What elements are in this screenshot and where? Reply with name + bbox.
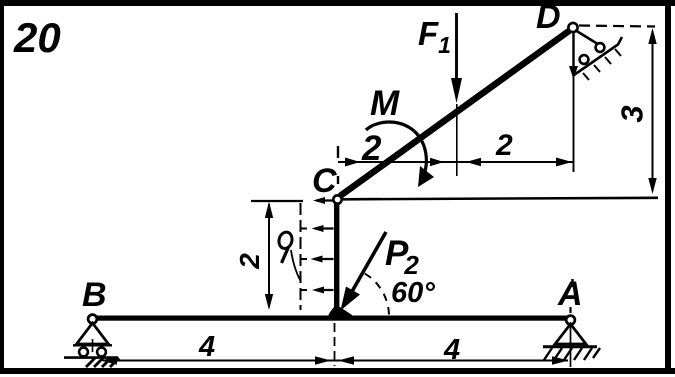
dim 3 arrow down — [648, 178, 656, 194]
svg-text:4: 4 — [198, 331, 215, 363]
60 degree dashed arc — [363, 273, 389, 315]
support A pin — [566, 316, 575, 325]
moment M arc — [366, 122, 426, 179]
roller support at D: rollers — [580, 55, 589, 64]
force P2 shaft — [350, 232, 386, 295]
dimension line 3 (right) — [652, 31, 654, 191]
frame border top — [0, 0, 675, 6]
support B hatching — [86, 358, 119, 367]
force F1 extension line below — [456, 104, 458, 176]
bottom dim arrow far left — [101, 356, 117, 364]
force F1 arrowhead — [451, 78, 462, 103]
tick below A label — [569, 307, 571, 313]
distributed load q dashed line — [300, 203, 302, 310]
svg-text:2: 2 — [234, 253, 265, 270]
q arrowheads — [313, 197, 325, 204]
dimension line 2 (left vertical) — [268, 204, 270, 307]
force P2 arrowhead — [341, 287, 361, 311]
extension line left of C — [251, 200, 303, 202]
bottom dim arrow mid-left — [315, 356, 331, 364]
dim arrow mid-right — [466, 158, 481, 166]
tick above A — [571, 279, 573, 287]
frame border left — [0, 0, 4, 372]
beam BA — [94, 316, 567, 321]
svg-text:F1: F1 — [418, 15, 451, 58]
svg-text:D: D — [536, 0, 561, 36]
support B centre tick — [92, 339, 94, 352]
roller support at D: corner blob — [569, 66, 578, 79]
extension line from D down — [573, 33, 575, 172]
dim arrow left (to C line) — [345, 158, 360, 167]
svg-text:4: 4 — [443, 334, 460, 366]
extension line from C to the right — [342, 198, 658, 200]
centre extension dashes below beam — [334, 323, 336, 366]
dashed line from D to dimension 3 — [579, 26, 655, 27]
label q — [277, 231, 293, 250]
column CE (vertical bar) — [334, 202, 339, 314]
roller support at D: incline surface — [573, 37, 623, 76]
svg-text:20: 20 — [13, 14, 61, 61]
support B triangle — [77, 323, 109, 344]
support A ground line — [543, 345, 597, 348]
dimension line top (2+2) — [338, 161, 574, 163]
support B ground line — [64, 356, 118, 359]
svg-text:60°: 60° — [391, 277, 435, 309]
support B pin — [88, 315, 97, 324]
q arrow 1 — [314, 201, 334, 291]
svg-text:M: M — [370, 84, 400, 123]
support A triangle — [555, 324, 586, 344]
svg-text:P2: P2 — [385, 234, 419, 280]
bottom dimension line (4+4) — [103, 360, 568, 362]
svg-text:2: 2 — [361, 129, 382, 168]
pin C — [333, 195, 341, 203]
support B base line — [73, 344, 112, 346]
dim 2 arrow up — [265, 202, 273, 219]
svg-text:3: 3 — [615, 105, 650, 122]
support A centre line — [570, 325, 572, 367]
dim arrow right (to D line) — [556, 158, 572, 167]
dim 3 arrow up — [648, 28, 656, 44]
junction blob E (beam / column / P2 tip) — [326, 307, 354, 320]
bottom dim arrow far right — [552, 356, 569, 364]
frame border right — [665, 4, 671, 374]
support B rollers — [79, 348, 88, 357]
support A hatching — [544, 348, 600, 360]
roller support at D: vertical link — [572, 31, 574, 70]
svg-text:B: B — [82, 276, 107, 314]
svg-text:C: C — [312, 162, 337, 200]
svg-text:2: 2 — [495, 129, 513, 162]
roller support at D: link — [575, 30, 601, 46]
pin D — [568, 23, 577, 32]
roller support at D: hatching — [583, 49, 621, 80]
dim 2 arrow down — [265, 294, 273, 310]
dim arrow mid-left — [430, 158, 444, 166]
q leader curve — [291, 250, 300, 280]
moment M arrowhead — [418, 166, 434, 187]
q leader dashes — [300, 229, 307, 291]
bar CD (inclined) — [340, 30, 571, 197]
force F1 line — [455, 13, 458, 82]
frame border bottom — [0, 368, 675, 374]
bottom dim arrow mid-right — [338, 356, 354, 364]
extension dashes above C — [337, 146, 339, 158]
